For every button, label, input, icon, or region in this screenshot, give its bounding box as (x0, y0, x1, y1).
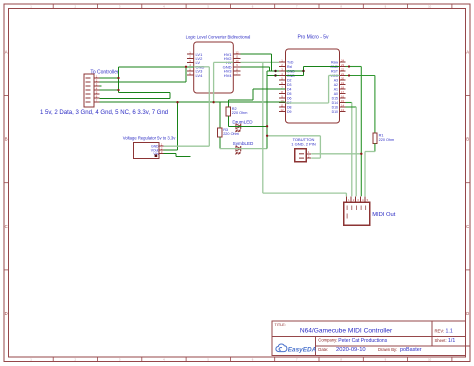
wire horizontal y92 (119, 92, 171, 94)
svg-text:1.1: 1.1 (446, 329, 453, 335)
connector J1 pins 1-7 stubs (94, 78, 100, 102)
svg-text:HV4: HV4 (224, 73, 233, 78)
wire U1 internal gnd vertical (303, 67, 305, 76)
svg-text:SymbLED: SymbLED (233, 141, 254, 146)
svg-text:A3: A3 (334, 78, 338, 82)
wire to U1 GND pin4 (267, 75, 279, 77)
svg-text:2020-09-10: 2020-09-10 (336, 347, 366, 353)
wire R3 top lead (219, 102, 221, 128)
svg-text:A1: A1 (334, 87, 338, 91)
U3 pin stubs (159, 146, 164, 153)
junction U1 gnd pin3 (274, 70, 276, 72)
J3 MIDI Out inner pin name pin1 second mark (346, 214, 348, 219)
svg-text:A: A (466, 50, 469, 55)
connector J2 TOBUTTON body (295, 149, 307, 162)
svg-text:N64/Gamecube MIDI Controller: N64/Gamecube MIDI Controller (300, 328, 393, 335)
svg-text:RST: RST (331, 69, 339, 73)
junction button (266, 135, 268, 137)
wire U1 internal gnd1 (286, 70, 304, 72)
wire R2 stair to U1 D4 (253, 88, 286, 90)
wire U1 D14 (346, 102, 352, 104)
wire U2 HV internal (214, 61, 234, 63)
wire VIn jog vertical (175, 154, 177, 157)
title block frame (272, 321, 470, 356)
U2 left pin labels (196, 52, 205, 78)
connector J1 pin dashes (86, 78, 91, 102)
wire button riser (319, 136, 321, 158)
wire R2 bottom lead (227, 116, 229, 126)
wire VCC to R1 vertical (374, 76, 376, 133)
svg-text:12: 12 (280, 108, 284, 112)
wire U1 internal vcc vertical (328, 76, 330, 104)
wire J1 pin7 gnd long horizontal (100, 101, 286, 103)
wire HV1 vertical (270, 54, 272, 71)
U1 left pin stubs (279, 62, 286, 112)
svg-text:13: 13 (341, 108, 345, 112)
wire J1 pin4 to junction (100, 89, 119, 91)
U3 pin labels (151, 145, 159, 156)
junction HV down (212, 101, 214, 103)
svg-text:Drawn By:: Drawn By: (378, 347, 397, 352)
wire MIDI pin3 vertical (355, 107, 357, 196)
J2 pin stubs (306, 154, 311, 158)
svg-text:D8: D8 (287, 105, 292, 109)
connector J1 pin numbers (96, 74, 98, 102)
wire U1 VCC right (346, 75, 375, 77)
wire VOut riser (177, 102, 179, 150)
wire SymbLED line (220, 148, 267, 150)
svg-text:22: 22 (341, 67, 345, 71)
wire U2 HV1 (241, 53, 272, 55)
wire J1 pin6 3.3v (100, 98, 171, 100)
wire vertical x263 to MIDI (262, 62, 264, 193)
resistor R1 body (373, 133, 377, 144)
svg-text:D14: D14 (332, 101, 338, 105)
wire U1 internal vcc (329, 75, 340, 77)
U1 right pin stubs (340, 62, 346, 112)
svg-text:poBaster: poBaster (400, 347, 422, 353)
svg-text:Logic Level Converter Bidirect: Logic Level Converter Bidirectional (186, 34, 251, 39)
wire R3 bottom lead (219, 137, 221, 149)
J3 MIDI Out inner pin names (347, 206, 366, 211)
svg-text:11: 11 (281, 103, 284, 107)
wire vertical bus at x118 (118, 67, 120, 93)
svg-text:220 Ohm: 220 Ohm (232, 111, 248, 115)
svg-text:Pro Micro - 5v: Pro Micro - 5v (297, 35, 329, 41)
svg-text:D9: D9 (287, 110, 292, 114)
svg-text:TxD: TxD (287, 60, 294, 64)
wire U2 GND internal (194, 66, 210, 68)
svg-text:220 Ohm: 220 Ohm (223, 132, 239, 136)
svg-text:15: 15 (341, 99, 345, 103)
svg-text:D15: D15 (332, 96, 338, 100)
svg-text:TITLE:: TITLE: (275, 323, 286, 327)
svg-text:R1: R1 (379, 134, 384, 138)
wire U1 D16 (346, 106, 357, 108)
svg-text:14: 14 (341, 103, 345, 107)
U2 left pin numbers (189, 51, 191, 76)
svg-text:Peter Cat Productions: Peter Cat Productions (338, 338, 387, 344)
svg-text:1/1: 1/1 (448, 338, 455, 344)
wire J2 pin1 to gnd vertical (311, 153, 361, 155)
wire U1 internal gnd to right pin (304, 66, 340, 68)
svg-text:220 Ohm: 220 Ohm (379, 138, 395, 142)
junction U1 GND right pin (348, 65, 350, 67)
frame row letters left (5, 50, 8, 316)
U1 left pin numbers (280, 58, 284, 112)
junction VOut riser (176, 101, 178, 103)
junction at pin1 (117, 77, 119, 79)
svg-text:D16: D16 (332, 105, 338, 109)
IC U3 voltage regulator body (134, 142, 160, 158)
wire gnd-led vertical (266, 71, 268, 149)
svg-text:1 GND, 2 PIN: 1 GND, 2 PIN (291, 141, 316, 146)
junction U1 internal gnd (302, 70, 304, 72)
wire horizontal y193 to MIDI pin1 (263, 192, 347, 194)
U3 pin numbers (161, 143, 163, 154)
U2 right pin labels (223, 52, 233, 78)
frame column tick marks bottom (53, 357, 452, 362)
wire U2 GND right pin (241, 66, 270, 68)
svg-text:19: 19 (341, 81, 345, 85)
wire J1 pin1 to junction (100, 77, 119, 79)
svg-text:Company:: Company: (318, 338, 337, 343)
svg-text:Date:: Date: (318, 347, 328, 352)
wire J2 pin2 (311, 157, 320, 159)
wire U1 internal gnd2 (286, 75, 304, 77)
wire R1 to MIDI pin5 horizontal (365, 151, 375, 153)
wire U2 HV to U1 TxD (241, 61, 280, 63)
wire R2 stair vertical (252, 89, 254, 100)
wire gnd vertical to MIDI pin4 (360, 67, 362, 197)
wire MIDI pin1 drop (345, 193, 347, 196)
wire U1 internal vcc horizontal (286, 102, 329, 104)
svg-text:D10: D10 (332, 110, 338, 114)
wire to U1 GND pin3 (267, 70, 279, 72)
wire R1 bottom lead (374, 143, 376, 151)
svg-text:10: 10 (428, 358, 432, 362)
svg-text:A2: A2 (334, 83, 338, 87)
wire U3 GND horizontal (164, 145, 210, 147)
junction button gnd (360, 153, 362, 155)
svg-text:17: 17 (341, 90, 345, 94)
wire vertical at x186 (185, 67, 187, 82)
frame column numbers bottom (30, 358, 431, 362)
wire DrumLED line (228, 125, 267, 127)
svg-text:24: 24 (341, 58, 345, 62)
U2 left pin stubs (187, 54, 194, 75)
wire R2 stair low (228, 99, 253, 101)
EasyEDA logo cloud (276, 344, 287, 352)
wire to U2 GND left pin (119, 66, 194, 68)
svg-text:Raw: Raw (331, 60, 338, 64)
svg-text:16: 16 (341, 94, 345, 98)
svg-text:B: B (5, 137, 8, 142)
svg-text:Voltage Regulator 5v to 3.3v: Voltage Regulator 5v to 3.3v (123, 135, 177, 140)
frame row letters right (466, 50, 469, 316)
svg-text:REV:: REV: (435, 329, 445, 334)
svg-text:D3: D3 (287, 83, 292, 87)
U2 right pin numbers (235, 51, 239, 76)
svg-text:C: C (466, 224, 469, 229)
wire vertical at x170 (169, 93, 171, 99)
svg-text:21: 21 (341, 72, 345, 76)
svg-text:10: 10 (428, 5, 432, 9)
junction DrumLED (266, 125, 268, 127)
svg-text:A0: A0 (334, 92, 338, 96)
wire VIn jog horizontal (176, 155, 191, 157)
wire button line horizontal (267, 135, 320, 137)
U1 left pin labels (287, 60, 295, 114)
IC U2 logic level converter body (194, 42, 234, 93)
LED SymbLED (236, 146, 241, 154)
U2 right pin stubs (233, 54, 240, 75)
svg-text:To Controller: To Controller (90, 69, 119, 75)
resistor R2 body (226, 107, 230, 116)
wire J1 pin3 stub (100, 85, 102, 87)
J3 MIDI Out pin numbers (348, 198, 369, 202)
wire U2 GND jog down (269, 67, 271, 71)
svg-text:RxI: RxI (287, 65, 292, 69)
junction U1 gnd pin4 (274, 74, 276, 76)
svg-text:Sheet:: Sheet: (435, 338, 447, 343)
wire MIDI pin5 vertical (364, 152, 366, 197)
U1 right pin numbers (341, 58, 345, 112)
svg-text:A: A (5, 50, 8, 55)
wire J1 pin2 data (100, 81, 187, 83)
svg-text:C: C (5, 224, 8, 229)
svg-text:D6: D6 (287, 96, 292, 100)
U1 right pin labels (330, 60, 339, 114)
frame row tick marks right (466, 96, 471, 270)
svg-text:D: D (466, 311, 469, 316)
svg-text:D: D (5, 311, 8, 316)
wire U1 GND right (346, 66, 362, 68)
wire U2 HV down to gnd line (213, 62, 215, 102)
resistor R3 body (218, 128, 222, 137)
junction U1 VCC right pin (348, 74, 350, 76)
svg-text:D4: D4 (287, 87, 292, 91)
svg-text:20: 20 (341, 76, 345, 80)
wire R2 top lead (227, 100, 229, 107)
wire U2 GND passthrough down (208, 67, 210, 146)
module U1 Pro Micro body (286, 49, 340, 123)
svg-text:MIDI Out: MIDI Out (372, 212, 396, 218)
frame row tick marks left (4, 96, 9, 270)
svg-text:1 5v, 2 Data, 3 Gnd, 4 Gnd, 5: 1 5v, 2 Data, 3 Gnd, 4 Gnd, 5 NC, 6 3.3v… (40, 110, 168, 116)
svg-text:LV4: LV4 (196, 73, 204, 78)
U3 pin1 marker (155, 154, 158, 157)
LED DrumLED (236, 124, 241, 132)
wire U3 VIn (164, 153, 177, 155)
junction at pin4 (117, 89, 119, 91)
svg-text:23: 23 (341, 63, 345, 67)
svg-text:D5: D5 (287, 92, 292, 96)
connector J3 MIDI Out body (344, 202, 370, 225)
junction U2 gnd left (185, 66, 187, 68)
J2 pin dashes (299, 154, 304, 158)
J3 MIDI Out pin stubs (346, 196, 365, 202)
wire U3 VOut (164, 149, 178, 151)
svg-text:EasyEDA: EasyEDA (288, 347, 317, 354)
frame column tick marks top (53, 4, 452, 9)
svg-text:D2: D2 (287, 78, 292, 82)
frame column numbers top (30, 5, 431, 9)
connector J1 To Controller body (84, 74, 94, 107)
svg-text:18: 18 (341, 85, 345, 89)
wire MIDI pin2 vertical (351, 103, 353, 197)
svg-text:B: B (466, 137, 469, 142)
